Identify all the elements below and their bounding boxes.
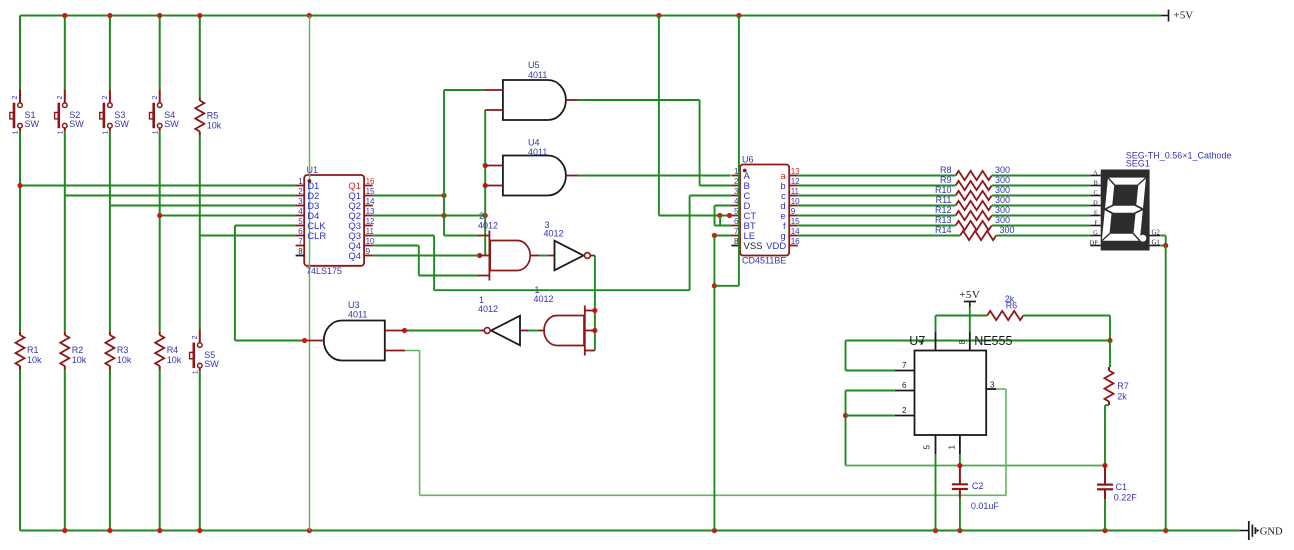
wire U6 BT link — [715, 225, 732, 227]
svg-text:SW: SW — [204, 359, 219, 369]
svg-text:2: 2 — [902, 406, 907, 415]
svg-text:CLR: CLR — [307, 231, 326, 242]
U1 pin 3 D3 — [296, 197, 320, 212]
wire Q1 to gates — [373, 195, 444, 197]
wire 555 output long — [420, 494, 1006, 496]
gate2 input stub 1 — [478, 235, 490, 237]
wire column S3 lower — [109, 370, 111, 531]
gate1 input stub 3 — [585, 350, 595, 352]
svg-text:10k: 10k — [207, 121, 222, 131]
junction LE — [712, 233, 717, 238]
wire C1 to GND — [1104, 499, 1106, 531]
U6 pin 4 D — [731, 197, 750, 212]
svg-text:4: 4 — [918, 340, 927, 345]
U6 pin 7 LE — [731, 227, 755, 242]
NAND gate 2 4012 bus line — [488, 231, 490, 281]
svg-text:R1: R1 — [27, 345, 39, 355]
wire column S4 middle — [159, 131, 161, 331]
wire D3 net — [110, 205, 296, 207]
capacitor C1 0.22F — [1097, 466, 1137, 503]
U3 output stub — [305, 340, 324, 342]
svg-text:2: 2 — [479, 211, 484, 221]
resistor R6 2k — [987, 294, 1023, 320]
U1 pin 2 D2 — [296, 187, 320, 202]
svg-text:3: 3 — [990, 381, 995, 390]
svg-text:300: 300 — [1000, 225, 1015, 235]
wire U5 input1 — [444, 89, 483, 91]
switch S3 — [100, 90, 130, 135]
U1 pin 1 indicator — [308, 179, 312, 183]
display pin G — [1090, 230, 1100, 237]
svg-text:2: 2 — [12, 96, 19, 100]
svg-text:4011: 4011 — [528, 70, 547, 80]
junction U3 in1 — [402, 328, 407, 333]
svg-text:1: 1 — [152, 130, 159, 134]
wire R11 to display — [992, 205, 1091, 207]
resistor R11 300 — [936, 195, 1010, 210]
wire G2 drop — [1165, 236, 1167, 246]
svg-text:VDD: VDD — [766, 241, 786, 252]
svg-text:8: 8 — [958, 340, 967, 345]
wire R12 to display — [992, 215, 1091, 217]
gate2 input stub 3 — [478, 275, 490, 277]
U1 pin 1 D1 — [296, 177, 320, 192]
U1 pin 13 Q2 — [348, 207, 375, 222]
wire column S1 upper — [19, 16, 21, 91]
svg-text:SW: SW — [164, 119, 179, 129]
svg-text:R3: R3 — [117, 345, 129, 355]
wire column S4 upper — [159, 16, 161, 91]
svg-text:2: 2 — [102, 96, 109, 100]
resistor R13 300 — [935, 215, 1010, 230]
IC U6 CD4511BE body — [740, 165, 789, 256]
wire U6 B link — [700, 185, 732, 187]
U6 pin 12 b — [780, 177, 800, 192]
svg-text:Q4: Q4 — [348, 251, 361, 262]
U6 pin 3 C — [731, 187, 750, 202]
svg-text:2: 2 — [152, 96, 159, 100]
svg-text:2: 2 — [57, 96, 64, 100]
U7 pin 4 — [918, 332, 936, 351]
wire CLK horizontal — [235, 225, 296, 227]
inv3 output stub — [590, 255, 595, 257]
svg-text:G1: G1 — [1152, 240, 1160, 247]
junction top rail S4 — [157, 13, 162, 18]
wire U6 b to R9 — [798, 185, 956, 187]
U5 input pin 2 — [485, 109, 503, 111]
wire D4 net — [160, 215, 296, 217]
U5 input pin 1 — [483, 89, 503, 91]
U1 pin 9 Q4 — [348, 247, 372, 262]
svg-text:A: A — [1093, 170, 1098, 177]
svg-text:F: F — [1094, 220, 1098, 227]
IC U7 NE555 body — [915, 351, 987, 436]
junction bottom rail R4 — [157, 528, 162, 533]
switch S4 — [150, 90, 180, 135]
svg-text:U5: U5 — [528, 60, 540, 70]
U6 pin 2 B — [731, 177, 749, 192]
resistor R12 300 — [935, 205, 1010, 220]
junction top rail vertical A — [307, 13, 312, 18]
svg-text:7: 7 — [902, 361, 907, 370]
svg-text:6: 6 — [298, 227, 303, 236]
resistor R5 10k — [195, 97, 222, 135]
svg-text:0.22F: 0.22F — [1114, 493, 1138, 503]
display pin A — [1090, 170, 1100, 177]
svg-text:SW: SW — [114, 119, 129, 129]
U1 pin 6 CLR — [296, 227, 327, 242]
wire +5V top rail — [20, 14, 1161, 16]
U7 pin 3 — [986, 381, 996, 390]
gate1 input stub 1 — [585, 310, 595, 312]
resistor R1 10k — [16, 332, 43, 370]
wire U6 a to R8 — [798, 175, 956, 177]
svg-text:10k: 10k — [72, 355, 87, 365]
svg-text:4012: 4012 — [478, 221, 498, 231]
U4 input pin 1 — [485, 165, 503, 167]
wire LE vertical — [713, 236, 715, 531]
wire pin7 link — [846, 370, 895, 372]
wire R6 drop — [1109, 316, 1111, 341]
wire D1 net — [20, 185, 296, 187]
wire U6 f to R13 — [798, 225, 956, 227]
junction bottom rail R2 — [62, 528, 67, 533]
gate1 input stub 2 — [585, 330, 595, 332]
wire C2 to GND — [959, 498, 961, 531]
wire Q4 to gate2 — [419, 275, 478, 277]
svg-text:SW: SW — [25, 119, 40, 129]
junction Q4b gate2 — [477, 253, 482, 258]
U6 pin 8 VSS — [731, 237, 762, 252]
svg-text:12: 12 — [366, 217, 375, 226]
wire U5 output — [577, 99, 700, 101]
wire LE jog — [714, 285, 739, 287]
power flag +5V — [1161, 10, 1193, 22]
U1 pin 11 Q3 — [348, 227, 374, 242]
svg-text:15: 15 — [366, 187, 375, 196]
display pin B — [1090, 180, 1100, 187]
wire discharge left drop — [845, 341, 847, 371]
wire R7 top — [1109, 341, 1111, 368]
svg-text:R9: R9 — [940, 175, 952, 185]
wire CT-BT tie — [719, 216, 721, 226]
inverter 1 4012 — [478, 295, 520, 345]
gate2 output stub — [530, 255, 540, 257]
wire column S1 lower — [19, 370, 21, 531]
junction bottom rail C1 column — [1102, 528, 1107, 533]
U6 pin 6 BT — [731, 217, 755, 232]
svg-text:300: 300 — [995, 195, 1010, 205]
display pin E — [1090, 210, 1100, 217]
svg-text:1: 1 — [103, 130, 110, 134]
svg-text:CD4511BE: CD4511BE — [742, 256, 786, 266]
U7 pin 7 — [895, 361, 915, 371]
NAND gate U3 4011 — [324, 300, 385, 361]
U7 pin 5 — [923, 435, 936, 454]
svg-text:300: 300 — [995, 215, 1010, 225]
wire threshold line — [846, 465, 1106, 467]
svg-text:G2: G2 — [1152, 230, 1161, 237]
svg-text:10k: 10k — [117, 355, 132, 365]
svg-text:+5V: +5V — [1174, 10, 1194, 22]
wire R7 bottom — [1104, 405, 1106, 465]
power flag +5V NE555 — [959, 289, 980, 306]
svg-text:R4: R4 — [167, 345, 179, 355]
wire U3 output — [235, 340, 305, 342]
U1 pin 10 Q4 — [348, 237, 375, 252]
svg-text:R6: R6 — [1006, 301, 1018, 311]
wire CT riser — [658, 16, 660, 216]
svg-text:300: 300 — [995, 205, 1010, 215]
U5 output pin — [566, 99, 577, 101]
wire R6 right — [1023, 315, 1110, 317]
U6 pin 14 g — [780, 227, 800, 242]
junction bottom rail vertical A — [307, 528, 312, 533]
svg-text:4: 4 — [298, 207, 303, 216]
wire discharge line — [846, 340, 1111, 342]
U4 output pin — [566, 175, 577, 177]
junction U4 in1 — [483, 163, 488, 168]
svg-text:C2: C2 — [972, 481, 984, 491]
wire column R5 upper — [199, 16, 201, 98]
svg-text:D: D — [1093, 200, 1098, 207]
wire pin1 down — [959, 454, 961, 466]
svg-text:10k: 10k — [167, 355, 182, 365]
svg-text:1: 1 — [13, 130, 20, 134]
wire U6 C link — [690, 195, 732, 197]
svg-text:SEG1: SEG1 — [1126, 159, 1150, 169]
U7 pin 1 — [948, 435, 960, 454]
svg-text:R11: R11 — [936, 195, 952, 205]
junction bottom rail R3 — [107, 528, 112, 533]
svg-text:6: 6 — [902, 381, 907, 390]
svg-text:10k: 10k — [27, 355, 42, 365]
junction CT 1 — [717, 213, 722, 218]
junction G1 — [1163, 243, 1168, 248]
junction D4/S4 — [157, 213, 162, 218]
label CD4511BE — [742, 256, 786, 266]
NAND gate 2 4012 body — [478, 211, 530, 271]
svg-text:8: 8 — [298, 247, 303, 256]
wire riser U5 input — [443, 90, 445, 236]
wire gate2 to inv3 — [539, 255, 549, 257]
svg-text:C1: C1 — [1116, 482, 1128, 492]
svg-text:0.01uF: 0.01uF — [971, 501, 1000, 511]
wire Q4b to gate2 — [373, 255, 480, 257]
wire pin5 to GND — [935, 454, 937, 531]
NAND gate U5 4011 — [503, 60, 566, 120]
svg-text:U1: U1 — [307, 165, 319, 175]
wire pin6-pin2 drop — [845, 391, 847, 466]
wire pin6 link — [846, 390, 895, 392]
wire C riser — [689, 196, 691, 291]
wire Q3 vertical — [433, 236, 435, 291]
wire U6 d to R11 — [798, 205, 956, 207]
junction top rail S2 — [62, 13, 67, 18]
U1 pin 14 Q2 — [348, 197, 375, 212]
junction Q2 end — [483, 213, 488, 218]
label NE555 — [974, 334, 1012, 348]
resistor R10 300 — [935, 185, 1010, 200]
U7 pin 8 — [958, 332, 970, 351]
display pin DP — [1090, 240, 1101, 247]
wire Q3 lower horizontal — [434, 289, 689, 291]
svg-text:R14: R14 — [935, 225, 952, 235]
wire D-BT tie — [714, 206, 716, 226]
junction gate1 in2 — [592, 328, 597, 333]
junction LE jog — [712, 283, 717, 288]
svg-text:2: 2 — [298, 187, 303, 196]
svg-text:11: 11 — [366, 227, 375, 236]
wire riser U4 inputs — [484, 110, 486, 256]
svg-text:4012: 4012 — [478, 304, 498, 314]
display pin G2 — [1150, 230, 1161, 237]
wire column S3 upper — [109, 16, 111, 91]
svg-text:300: 300 — [995, 175, 1010, 185]
wire R7 jog — [1105, 404, 1109, 406]
wire U6 edge vertical — [738, 16, 740, 286]
junction bottom rail C2 column — [957, 528, 962, 533]
svg-text:14: 14 — [791, 227, 800, 236]
gate2 input stub 2 — [480, 255, 490, 257]
wire D2 net — [65, 195, 296, 197]
wire R13 to display — [992, 225, 1091, 227]
junction top rail U6 column — [736, 13, 741, 18]
U3 input stub 1 — [385, 330, 405, 332]
wire pin3 drop — [1005, 389, 1007, 495]
inv1 input stub — [520, 330, 528, 332]
junction U3 output — [302, 338, 307, 343]
junction gate1 in1 — [592, 308, 597, 313]
junction CT 2 — [727, 213, 732, 218]
junction R7/C1 — [1102, 463, 1107, 468]
resistor R3 10k — [105, 332, 132, 370]
wire U3 in2 vertical — [419, 351, 421, 496]
svg-text:SW: SW — [69, 119, 84, 129]
svg-text:11: 11 — [791, 187, 800, 196]
resistor R2 10k — [60, 332, 87, 370]
junction bottom rail display column — [1163, 528, 1168, 533]
svg-text:U3: U3 — [348, 300, 360, 310]
junction top rail CT column — [656, 13, 661, 18]
wire +5V stem — [969, 307, 971, 333]
wire column S2 upper — [64, 16, 66, 91]
resistor R8 300 — [940, 165, 1010, 180]
svg-text:1: 1 — [192, 370, 199, 374]
svg-text:U6: U6 — [742, 154, 754, 164]
svg-text:R10: R10 — [935, 185, 952, 195]
wire U5 output drop — [699, 100, 701, 186]
U1 pin 16 Q1 — [348, 177, 375, 192]
U1 pin 12 Q3 — [348, 217, 375, 232]
wire inv3 output drop — [594, 256, 596, 351]
inv1 output stub — [480, 330, 484, 332]
wire column S1 middle — [19, 131, 21, 331]
svg-text:2k: 2k — [1117, 392, 1127, 402]
wire column R5/S5 middle — [199, 135, 201, 330]
wire column S3 middle — [109, 131, 111, 331]
junction bottom rail LE column — [712, 528, 717, 533]
wire column S5 lower — [199, 371, 201, 530]
svg-text:R7: R7 — [1117, 381, 1129, 391]
label 74LS175 — [306, 266, 342, 276]
NAND gate U4 4011 — [503, 138, 566, 196]
junction R6/R7 — [1107, 338, 1112, 343]
svg-text:R12: R12 — [935, 205, 952, 215]
display pin G1 — [1150, 240, 1161, 247]
svg-text:GND: GND — [1260, 526, 1283, 537]
U3 input stub 2 — [385, 350, 405, 352]
svg-text:3: 3 — [298, 197, 303, 206]
svg-text:4011: 4011 — [348, 310, 367, 320]
svg-text:10: 10 — [791, 197, 800, 206]
U6 pin 16 VDD — [766, 237, 800, 252]
junction D1/S1 — [17, 183, 22, 188]
svg-text:300: 300 — [995, 165, 1010, 175]
svg-text:C: C — [1094, 190, 1098, 197]
U7 pin 6 — [895, 381, 915, 391]
wire Q4 vertical — [418, 246, 420, 276]
svg-text:1: 1 — [57, 130, 64, 134]
svg-text:4012: 4012 — [534, 294, 554, 304]
svg-text:4011: 4011 — [528, 147, 547, 157]
resistor R9 300 — [940, 175, 1010, 190]
wire U6 e to R12 — [798, 215, 956, 217]
U6 pin 5 CT — [731, 207, 756, 222]
svg-text:16: 16 — [791, 237, 800, 246]
junction bottom rail S5 — [197, 528, 202, 533]
svg-text:5: 5 — [923, 445, 932, 450]
wire column S2 middle — [64, 131, 66, 331]
capacitor C2 0.01uF — [952, 466, 1000, 512]
gate1 output stub — [538, 330, 545, 332]
svg-text:16: 16 — [366, 177, 375, 186]
junction bottom rail pin5 column — [933, 528, 938, 533]
U6 pin 1 A — [731, 167, 750, 182]
svg-text:13: 13 — [791, 167, 800, 176]
label U1 — [307, 165, 319, 175]
svg-text:U4: U4 — [528, 138, 540, 148]
NAND gate 1 4012 body — [534, 285, 585, 346]
wire display to GND — [1165, 246, 1167, 531]
resistor R7 2k — [1105, 367, 1129, 405]
junction pin2 — [843, 413, 848, 418]
U6 pin 10 d — [780, 197, 800, 212]
U6 pin 11 c — [781, 187, 800, 202]
svg-text:12: 12 — [791, 177, 800, 186]
wire Q3 horizontal — [373, 235, 434, 237]
U1 pin 8 NC — [296, 247, 305, 256]
junction C2 top — [957, 463, 962, 468]
wire pin4 riser — [935, 316, 937, 333]
svg-text:2: 2 — [192, 335, 199, 339]
svg-text:R5: R5 — [207, 111, 219, 121]
svg-text:14: 14 — [366, 197, 375, 206]
wire GND bottom rail — [20, 529, 1240, 531]
NAND gate 1 4012 bus line — [584, 306, 586, 356]
svg-text:E: E — [1094, 210, 1098, 217]
junction Q2 riser — [441, 213, 446, 218]
label SEG-TH — [1126, 151, 1232, 161]
wire R9 to display — [992, 185, 1091, 187]
svg-text:+5V: +5V — [959, 289, 980, 301]
svg-text:1: 1 — [298, 177, 303, 186]
wire U3 in2 horizontal — [405, 350, 420, 352]
svg-text:13: 13 — [366, 207, 375, 216]
wire column S2 lower — [64, 370, 66, 531]
wire inv1 output — [405, 330, 480, 332]
U1 pin 15 Q1 — [348, 187, 375, 202]
